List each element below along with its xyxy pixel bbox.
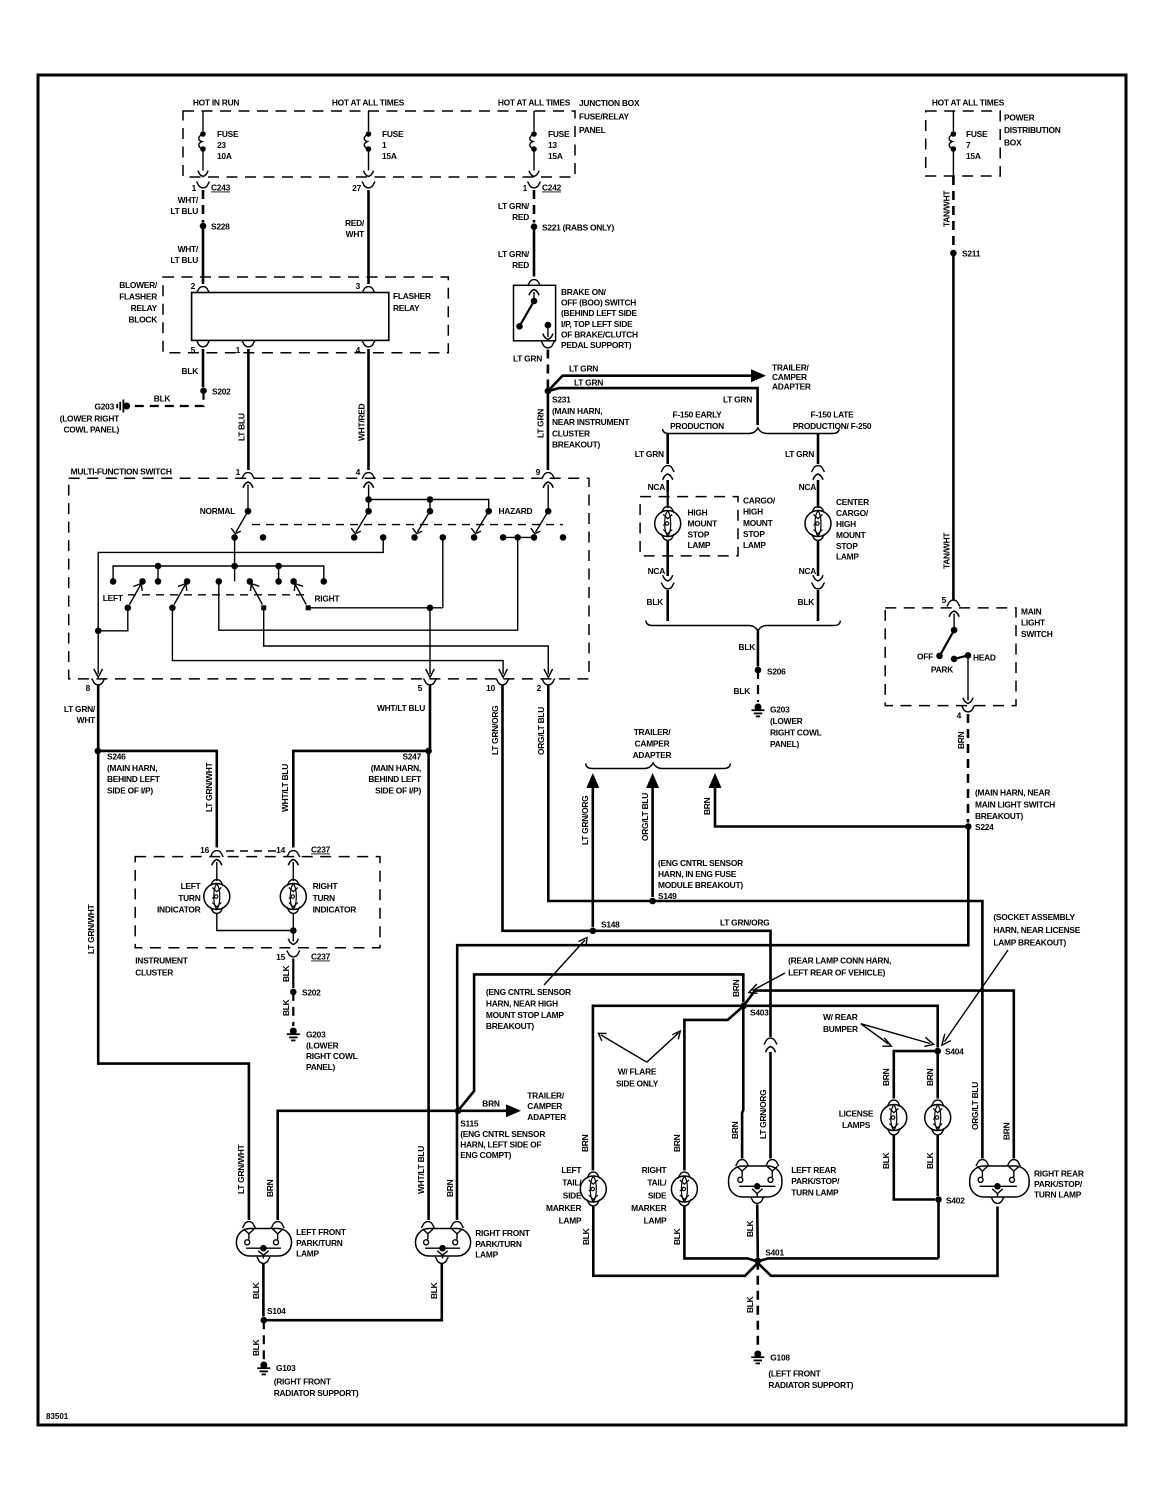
svg-text:WHT: WHT: [346, 229, 365, 239]
splice S104: [261, 1317, 268, 1324]
splice S401: [755, 1258, 762, 1265]
LEFT blade: [130, 581, 143, 604]
svg-text:LT GRN/ORG: LT GRN/ORG: [580, 796, 590, 845]
splice S403: [740, 1003, 747, 1010]
arrow up from wiper pivot: [953, 614, 955, 631]
arrow up inside: [533, 292, 535, 301]
fuse 7 15A: [949, 131, 956, 152]
license lamp 1: [887, 1100, 900, 1106]
pin 5: [197, 341, 210, 347]
svg-text:4: 4: [957, 711, 962, 721]
svg-text:BRN: BRN: [580, 1134, 590, 1152]
svg-text:C243: C243: [211, 183, 231, 193]
svg-text:S247: S247: [402, 752, 421, 762]
svg-text:MAIN LIGHT SWITCH: MAIN LIGHT SWITCH: [975, 799, 1055, 809]
svg-text:ADAPTER: ADAPTER: [772, 382, 811, 392]
wiper pivot: [951, 627, 958, 634]
svg-text:OFF (BOO) SWITCH: OFF (BOO) SWITCH: [561, 298, 636, 308]
svg-text:27: 27: [352, 183, 361, 193]
splice S221: [531, 223, 538, 230]
svg-text:TURN LAMP: TURN LAMP: [1034, 1190, 1082, 1200]
svg-text:RADIATOR SUPPORT): RADIATOR SUPPORT): [768, 1380, 853, 1390]
svg-text:WHT: WHT: [77, 715, 96, 725]
svg-text:INSTRUMENT: INSTRUMENT: [135, 956, 189, 966]
contact row 2: [110, 578, 117, 585]
svg-text:BRN: BRN: [672, 1134, 682, 1152]
svg-text:BEHIND LEFT: BEHIND LEFT: [107, 774, 161, 784]
svg-text:BREAKOUT): BREAKOUT): [486, 1021, 534, 1031]
svg-text:TAIL/: TAIL/: [562, 1178, 582, 1188]
svg-text:LT GRN: LT GRN: [569, 364, 598, 374]
svg-text:ENG COMPT): ENG COMPT): [460, 1150, 511, 1160]
svg-text:LEFT: LEFT: [181, 881, 202, 891]
svg-text:LT GRN: LT GRN: [574, 377, 603, 387]
gang dashed line upper: [252, 524, 563, 526]
svg-text:SIDE: SIDE: [563, 1190, 582, 1200]
svg-text:(LOWER: (LOWER: [306, 1040, 339, 1050]
wire WHT/LT BLU S228 to flasher pin 2: [202, 226, 205, 284]
svg-text:FLASHER: FLASHER: [393, 291, 431, 301]
svg-text:W/ REAR: W/ REAR: [823, 1012, 858, 1022]
svg-text:PRODUCTION/ F-250: PRODUCTION/ F-250: [793, 421, 872, 431]
svg-text:8: 8: [86, 683, 91, 693]
svg-text:LT GRN: LT GRN: [513, 354, 542, 364]
svg-text:WHT/LT BLU: WHT/LT BLU: [416, 1146, 426, 1194]
svg-text:BEHIND LEFT: BEHIND LEFT: [368, 774, 422, 784]
svg-text:TURN: TURN: [313, 893, 335, 903]
wire BLK flasher pin5 to S202: [202, 349, 205, 387]
svg-text:(ENG CNTRL SENSOR: (ENG CNTRL SENSOR: [486, 987, 571, 997]
svg-text:NORMAL: NORMAL: [200, 506, 235, 516]
wire BLK dashed S202 to G203: [130, 391, 204, 406]
pin 5 connector: [424, 679, 437, 685]
svg-text:LEFT: LEFT: [561, 1165, 582, 1175]
svg-text:ORG/LT BLU: ORG/LT BLU: [640, 793, 650, 841]
svg-text:(SOCKET ASSEMBLY: (SOCKET ASSEMBLY: [993, 912, 1075, 922]
splice S202 (left): [200, 387, 207, 394]
svg-text:13: 13: [548, 140, 557, 150]
top brace: [663, 428, 840, 434]
svg-text:S403: S403: [750, 1008, 769, 1018]
svg-text:MOUNT: MOUNT: [743, 518, 774, 528]
wiper arrow pin9: [547, 485, 549, 512]
svg-text:PARK/STOP/: PARK/STOP/: [1034, 1179, 1083, 1189]
connector C242 pin 1: [528, 182, 541, 188]
svg-text:BLK: BLK: [581, 1228, 591, 1245]
splice S404: [934, 1048, 941, 1055]
svg-text:HARN, NEAR HIGH: HARN, NEAR HIGH: [486, 998, 558, 1008]
svg-text:5: 5: [418, 683, 423, 693]
ground G103: [257, 1362, 270, 1375]
wire BRN S224 left/up to trailer-camper adapter arrow: [715, 787, 968, 827]
svg-text:S202: S202: [302, 988, 321, 998]
ground G203 (lower right cowl panel): [117, 400, 130, 413]
svg-text:STOP: STOP: [836, 541, 858, 551]
connector pin 27: [362, 182, 375, 188]
inline connector: [661, 466, 674, 472]
svg-text:S115: S115: [460, 1118, 479, 1128]
wire TAN/WHT S211 to main light switch pin 5: [952, 253, 955, 600]
svg-text:BLOWER/: BLOWER/: [119, 280, 158, 290]
svg-text:S221 (RABS ONLY): S221 (RABS ONLY): [542, 223, 614, 233]
svg-text:BRAKE ON/: BRAKE ON/: [561, 287, 607, 297]
svg-text:15A: 15A: [966, 151, 981, 161]
svg-text:LAMP BREAKOUT): LAMP BREAKOUT): [993, 938, 1066, 948]
svg-text:G108: G108: [770, 1353, 790, 1363]
svg-text:FLASHER: FLASHER: [119, 292, 157, 302]
svg-text:(MAIN HARN,: (MAIN HARN,: [371, 763, 421, 773]
svg-text:INDICATOR: INDICATOR: [157, 904, 201, 914]
svg-text:LT GRN/WHT: LT GRN/WHT: [86, 903, 96, 954]
wire BLK dashed S401 to G108: [756, 1261, 759, 1349]
svg-text:2: 2: [537, 683, 542, 693]
svg-text:ORG/LT BLU: ORG/LT BLU: [536, 707, 546, 755]
svg-text:NCA: NCA: [799, 482, 817, 492]
svg-text:S404: S404: [945, 1047, 964, 1057]
svg-text:LT GRN/WHT: LT GRN/WHT: [236, 1143, 246, 1194]
svg-text:1: 1: [523, 183, 528, 193]
wire contact 517.7 to 218.8: [219, 537, 518, 630]
splice S211: [950, 250, 957, 257]
svg-text:SIDE OF I/P): SIDE OF I/P): [375, 785, 421, 795]
svg-text:LEFT: LEFT: [103, 593, 124, 603]
fuse 1 feed wire: [368, 111, 370, 131]
connector C237 pin 14: [287, 851, 300, 857]
svg-text:BLK: BLK: [429, 1282, 439, 1299]
svg-text:23: 23: [217, 140, 226, 150]
S404 down to license lamp 2: [936, 1051, 939, 1098]
high mount stop lamp (left): [661, 507, 674, 513]
contact row 1: [260, 534, 267, 541]
wire BRN S115 down to right front lamp: [457, 1111, 458, 1220]
svg-text:WHT/RED: WHT/RED: [357, 403, 367, 441]
svg-text:MOUNT: MOUNT: [688, 518, 719, 528]
svg-text:MOUNT: MOUNT: [836, 530, 867, 540]
svg-text:TAIL/: TAIL/: [647, 1178, 667, 1188]
svg-text:LT BLU: LT BLU: [170, 255, 198, 265]
svg-text:RELAY: RELAY: [131, 303, 158, 313]
svg-text:TAN/WHT: TAN/WHT: [942, 190, 952, 227]
svg-text:S104: S104: [267, 1306, 286, 1316]
svg-text:STOP: STOP: [688, 529, 710, 539]
svg-text:CARGO/: CARGO/: [836, 508, 869, 518]
svg-text:LIGHT: LIGHT: [1021, 618, 1046, 628]
svg-text:(LOWER: (LOWER: [770, 716, 803, 726]
svg-text:LT GRN/: LT GRN/: [64, 704, 96, 714]
svg-text:PANEL): PANEL): [306, 1062, 336, 1072]
svg-text:LAMP: LAMP: [559, 1216, 582, 1226]
pin 3: [362, 287, 375, 293]
gang dashed line lower: [128, 594, 308, 596]
wire BRN right leg up to y974.4 rail to S403: [458, 974, 743, 1110]
svg-text:14: 14: [276, 845, 285, 855]
bottom brace: [646, 621, 841, 632]
S403 zigzag to right tail marker: [684, 1006, 743, 1170]
wire contact 442.8 down: [442, 537, 444, 607]
svg-text:LT GRN/: LT GRN/: [498, 249, 530, 259]
svg-text:WHT/LT BLU: WHT/LT BLU: [280, 764, 290, 812]
svg-text:BRN: BRN: [730, 1121, 740, 1139]
ground G203 (lower right cowl panel): [287, 1028, 300, 1041]
svg-text:15: 15: [276, 952, 285, 962]
svg-text:C237: C237: [311, 845, 331, 855]
svg-text:LT GRN/WHT: LT GRN/WHT: [204, 761, 214, 812]
svg-text:LT GRN: LT GRN: [635, 449, 664, 459]
wire to C242: [533, 151, 535, 171]
wire WHT/RED flasher pin4 to MFS pin4: [367, 349, 370, 470]
svg-text:(ENG CNTRL SENSOR: (ENG CNTRL SENSOR: [460, 1129, 545, 1139]
svg-text:WHT/LT BLU: WHT/LT BLU: [377, 703, 425, 713]
fuse 7 feed wire: [952, 111, 954, 131]
BRN rail through S403: left tail marker to S404: [593, 1006, 938, 1171]
svg-text:SIDE ONLY: SIDE ONLY: [616, 1078, 659, 1088]
center cargo/high mount stop lamp: [812, 507, 825, 513]
svg-text:S246: S246: [107, 752, 126, 762]
arrows up inside: [216, 862, 218, 873]
wire BLK pin15 to S202: [292, 959, 294, 989]
RIGHT blade: [294, 581, 307, 604]
wire normal contact down: [234, 537, 236, 566]
svg-text:OFF: OFF: [917, 652, 933, 662]
svg-text:BLK: BLK: [251, 1282, 261, 1299]
svg-text:9: 9: [536, 467, 541, 477]
rail to pin 5: [308, 607, 443, 609]
wire BRN arrow to trailer/camper adapter: [458, 1110, 507, 1113]
splice S115: [455, 1108, 462, 1115]
pin 4 connector: [362, 473, 375, 479]
svg-text:BRN: BRN: [445, 1179, 455, 1197]
svg-text:LT GRN: LT GRN: [536, 409, 546, 438]
svg-text:BRN: BRN: [881, 1068, 891, 1086]
svg-text:MAIN: MAIN: [1021, 607, 1042, 617]
dashed box: [640, 497, 738, 556]
svg-text:SIDE: SIDE: [648, 1190, 667, 1200]
svg-text:BLK: BLK: [734, 686, 751, 696]
svg-text:TRAILER/: TRAILER/: [527, 1090, 565, 1100]
wire LT BLU flasher pin1 to MFS pin1: [247, 349, 250, 470]
svg-text:BREAKOUT): BREAKOUT): [975, 811, 1023, 821]
svg-text:LT GRN: LT GRN: [785, 449, 814, 459]
BOO switch box: [514, 285, 556, 341]
svg-text:HARN, LEFT SIDE OF: HARN, LEFT SIDE OF: [460, 1140, 541, 1150]
wire LT GRN arrow to trailer/camper adapter: [548, 376, 753, 391]
svg-text:LAMP: LAMP: [644, 1216, 667, 1226]
below lamp: [666, 541, 669, 577]
PARK contact: [951, 656, 958, 663]
svg-text:NCA: NCA: [648, 566, 666, 576]
svg-text:PARK: PARK: [931, 665, 953, 675]
connector C237 pin 15: [287, 951, 300, 957]
OFF contact: [936, 653, 943, 660]
svg-text:BLK: BLK: [745, 1220, 755, 1237]
svg-text:TAN/WHT: TAN/WHT: [942, 532, 952, 569]
wire BLK to S401: [756, 1205, 759, 1258]
blade to OFF: [941, 630, 955, 654]
left branch LT GRN: [666, 434, 669, 465]
arrow down from HEAD: [967, 655, 969, 700]
wiper arrow pin4: [368, 485, 370, 512]
svg-text:CLUSTER: CLUSTER: [135, 968, 173, 978]
svg-text:S401: S401: [765, 1248, 784, 1258]
svg-text:LT GRN: LT GRN: [723, 395, 752, 405]
blade: [521, 301, 535, 325]
splice S149: [649, 898, 656, 905]
svg-text:BLOCK: BLOCK: [128, 315, 157, 325]
svg-text:RIGHT: RIGHT: [313, 881, 339, 891]
svg-text:BLK: BLK: [745, 1296, 755, 1313]
svg-text:S148: S148: [601, 920, 620, 930]
svg-text:BLK: BLK: [925, 1152, 935, 1169]
svg-text:LAMP: LAMP: [688, 540, 711, 550]
splice S206: [755, 667, 762, 674]
svg-text:S402: S402: [946, 1196, 965, 1206]
splice S224: [965, 823, 972, 830]
svg-text:BRN: BRN: [482, 1099, 500, 1109]
wire BLK lamp to S104: [262, 1264, 265, 1317]
svg-text:RADIATOR SUPPORT): RADIATOR SUPPORT): [274, 1388, 359, 1398]
svg-text:LT GRN/ORG: LT GRN/ORG: [720, 918, 769, 928]
svg-text:1: 1: [236, 345, 241, 355]
wire LT GRN/ORG arrow up from S148: [591, 787, 594, 927]
wire contact 383.2 to pin 8: [98, 537, 383, 674]
hazard blades: [356, 511, 369, 532]
svg-text:G203: G203: [770, 705, 790, 715]
hazard feed rail: [365, 496, 372, 503]
svg-text:HIGH: HIGH: [743, 507, 763, 517]
wire to pin 27: [368, 151, 370, 171]
svg-text:F-150 LATE: F-150 LATE: [811, 410, 855, 420]
pin 1: [242, 341, 255, 347]
flasher relay box: [192, 293, 389, 341]
svg-text:INDICATOR: INDICATOR: [313, 904, 357, 914]
svg-text:LT GRN/ORG: LT GRN/ORG: [758, 1090, 768, 1139]
svg-text:(ENG CNTRL SENSOR: (ENG CNTRL SENSOR: [658, 858, 743, 868]
svg-text:PARK/TURN: PARK/TURN: [475, 1239, 522, 1249]
svg-text:PRODUCTION: PRODUCTION: [670, 421, 724, 431]
splice S202: [290, 989, 297, 996]
svg-text:ADAPTER: ADAPTER: [527, 1112, 566, 1122]
svg-text:2: 2: [191, 281, 196, 291]
svg-text:(MAIN HARN,: (MAIN HARN,: [107, 763, 157, 773]
svg-text:SWITCH: SWITCH: [1021, 629, 1053, 639]
svg-text:HOT IN RUN: HOT IN RUN: [193, 98, 240, 108]
svg-text:CAMPER: CAMPER: [527, 1101, 562, 1111]
svg-text:CLUSTER: CLUSTER: [552, 428, 590, 438]
svg-text:LAMPS: LAMPS: [842, 1120, 871, 1130]
wire to C243: [202, 151, 204, 171]
svg-text:BRN: BRN: [265, 1179, 275, 1197]
svg-text:BLK: BLK: [798, 597, 815, 607]
wire ORG/LT BLU arrow up from S149: [651, 787, 654, 897]
svg-text:LAMP: LAMP: [836, 552, 859, 562]
svg-text:HAZARD: HAZARD: [499, 506, 533, 516]
HEAD contact + blade: [954, 655, 968, 659]
svg-text:1: 1: [236, 467, 241, 477]
svg-text:MOUNT STOP LAMP: MOUNT STOP LAMP: [486, 1010, 564, 1020]
pin 9 connector: [542, 473, 555, 479]
svg-text:G103: G103: [276, 1363, 296, 1373]
right turn indicator: [292, 873, 294, 882]
right branch LT GRN: [817, 434, 820, 465]
wire down to S401 rail: [937, 1200, 940, 1259]
license lamp 2 BLK to S402: [936, 1136, 939, 1197]
svg-text:LAMP: LAMP: [475, 1250, 498, 1260]
wire BLK dashed S104 to G103: [263, 1320, 265, 1360]
svg-text:TURN: TURN: [178, 893, 200, 903]
wire RED/WHT pin27 to flasher pin 3: [367, 190, 370, 284]
svg-text:BLK: BLK: [281, 999, 291, 1016]
svg-text:LEFT REAR: LEFT REAR: [791, 1165, 836, 1175]
pin 4: [362, 341, 375, 347]
svg-text:PANEL): PANEL): [770, 739, 800, 749]
svg-text:S211: S211: [962, 249, 981, 259]
svg-text:LEFT REAR OF VEHICLE): LEFT REAR OF VEHICLE): [788, 967, 886, 977]
svg-text:STOP: STOP: [743, 529, 765, 539]
svg-text:BREAKOUT): BREAKOUT): [552, 440, 600, 450]
svg-text:10A: 10A: [217, 151, 232, 161]
pin 1 connector: [242, 473, 255, 479]
svg-text:LEFT FRONT: LEFT FRONT: [296, 1227, 347, 1237]
svg-text:RELAY: RELAY: [393, 303, 420, 313]
svg-text:BLK: BLK: [672, 1228, 682, 1245]
svg-text:W/ FLARE: W/ FLARE: [618, 1067, 657, 1077]
svg-text:BUMPER: BUMPER: [823, 1024, 858, 1034]
fuse 23 feed wire: [202, 111, 204, 131]
svg-text:C242: C242: [542, 183, 562, 193]
svg-text:RIGHT COWL: RIGHT COWL: [770, 728, 822, 738]
svg-text:RIGHT: RIGHT: [642, 1165, 668, 1175]
svg-text:ADAPTER: ADAPTER: [633, 750, 672, 760]
wire WHT/LT BLU dashed C243 to S228: [202, 190, 205, 223]
svg-text:(MAIN HARN,: (MAIN HARN,: [552, 406, 602, 416]
instrument cluster box: [135, 857, 380, 948]
svg-text:BRN: BRN: [702, 797, 712, 815]
brace: [586, 763, 731, 769]
blade pivot: [531, 298, 538, 305]
wire out of box: [952, 151, 954, 176]
svg-text:BLK: BLK: [182, 366, 199, 376]
svg-text:FUSE: FUSE: [548, 129, 570, 139]
svg-text:TRAILER/: TRAILER/: [634, 727, 672, 737]
svg-text:15A: 15A: [548, 151, 563, 161]
connector C243 pin 1: [197, 182, 210, 188]
svg-text:BLK: BLK: [881, 1152, 891, 1169]
rail y566: [113, 566, 324, 581]
wire LT GRN/RED S221 to BOO switch: [533, 227, 536, 277]
pin 10 connector: [496, 679, 509, 685]
svg-text:RIGHT REAR: RIGHT REAR: [1034, 1169, 1084, 1179]
svg-text:G203: G203: [306, 1029, 326, 1039]
svg-text:15A: 15A: [382, 151, 397, 161]
svg-text:PEDAL SUPPORT): PEDAL SUPPORT): [561, 340, 632, 350]
svg-text:LT GRN/ORG: LT GRN/ORG: [490, 706, 500, 755]
svg-text:7: 7: [966, 140, 971, 150]
svg-text:4: 4: [356, 467, 361, 477]
svg-text:OF BRAKE/CLUTCH: OF BRAKE/CLUTCH: [561, 329, 638, 339]
svg-text:NEAR INSTRUMENT: NEAR INSTRUMENT: [552, 417, 630, 427]
connector below BOO: [541, 342, 554, 348]
wire BLK S104 to right front lamp: [264, 1264, 442, 1320]
svg-text:LT BLU: LT BLU: [237, 413, 247, 441]
svg-text:RIGHT FRONT: RIGHT FRONT: [475, 1228, 531, 1238]
wire LT GRN dashed BOO to S231: [547, 350, 550, 389]
fuse 23 10A: [199, 131, 206, 152]
pin 5 connector: [947, 600, 960, 606]
svg-text:(LOWER RIGHT: (LOWER RIGHT: [60, 414, 120, 424]
svg-text:S228: S228: [211, 222, 230, 232]
svg-text:S231: S231: [552, 395, 571, 405]
svg-text:HOT AT ALL TIMES: HOT AT ALL TIMES: [932, 98, 1005, 108]
